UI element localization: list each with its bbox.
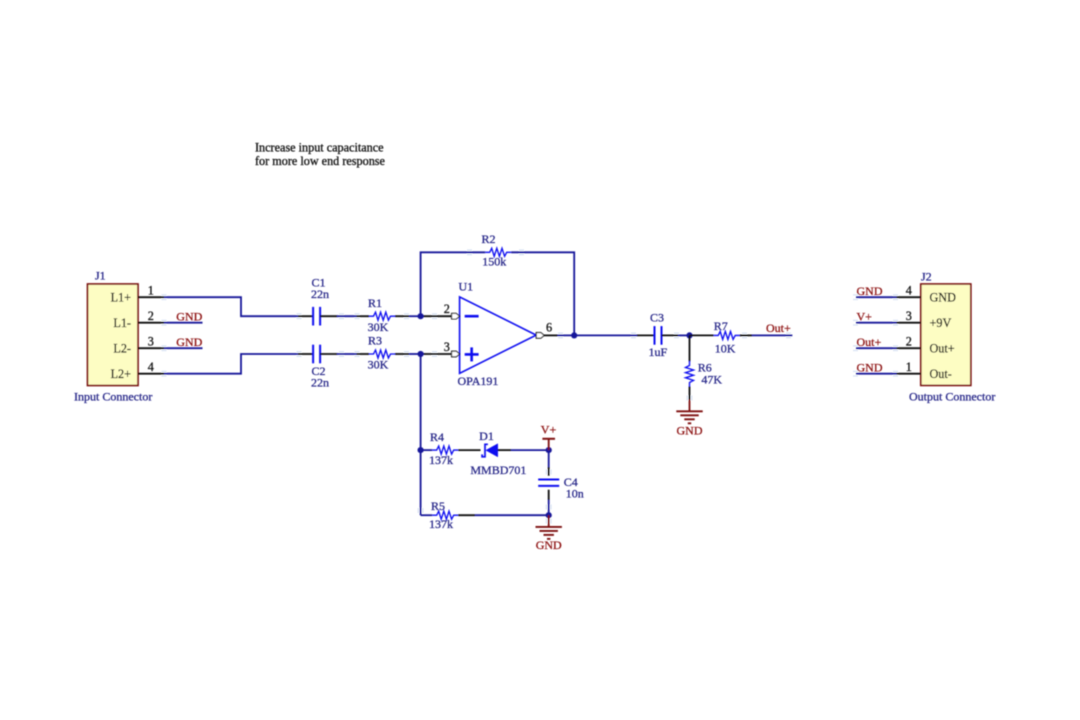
svg-text:R1: R1 [368, 296, 382, 310]
svg-text:2: 2 [906, 335, 912, 349]
svg-text:2: 2 [444, 302, 450, 316]
svg-text:L2+: L2+ [111, 367, 132, 381]
svg-text:Input Connector: Input Connector [74, 389, 152, 403]
svg-text:Out+: Out+ [857, 335, 882, 349]
svg-text:30K: 30K [368, 358, 389, 372]
svg-text:GND: GND [930, 290, 957, 304]
svg-text:10K: 10K [715, 341, 736, 355]
svg-text:Output Connector: Output Connector [909, 389, 995, 403]
svg-text:GND: GND [677, 423, 703, 437]
svg-text:GND: GND [536, 538, 562, 552]
svg-text:2: 2 [148, 309, 154, 323]
svg-text:V+: V+ [857, 310, 873, 324]
svg-text:+9V: +9V [930, 316, 952, 330]
svg-text:30K: 30K [368, 320, 389, 334]
svg-text:L1+: L1+ [111, 290, 132, 304]
svg-text:10n: 10n [566, 486, 584, 500]
svg-text:J1: J1 [95, 269, 106, 283]
svg-text:3: 3 [906, 309, 912, 323]
svg-text:137k: 137k [429, 453, 453, 467]
svg-text:22n: 22n [311, 287, 329, 301]
svg-text:L1-: L1- [113, 316, 131, 330]
svg-text:R7: R7 [714, 319, 728, 333]
svg-text:Out-: Out- [930, 367, 952, 381]
svg-text:Out+: Out+ [930, 341, 955, 355]
svg-text:GND: GND [857, 361, 883, 375]
svg-text:L2-: L2- [113, 341, 131, 355]
svg-text:OPA191: OPA191 [458, 374, 499, 388]
svg-text:4: 4 [906, 284, 912, 298]
svg-text:GND: GND [176, 335, 202, 349]
svg-text:R3: R3 [368, 334, 382, 348]
svg-text:3: 3 [148, 335, 154, 349]
svg-text:150k: 150k [482, 255, 506, 269]
svg-text:J2: J2 [921, 270, 932, 284]
svg-text:Increase input capacitance: Increase input capacitance [255, 140, 384, 154]
svg-text:U1: U1 [459, 280, 474, 294]
svg-text:Out+: Out+ [766, 321, 791, 335]
svg-text:MMBD701: MMBD701 [470, 463, 526, 477]
svg-text:6: 6 [546, 321, 552, 335]
svg-text:for more low end response: for more low end response [255, 154, 385, 168]
svg-text:4: 4 [148, 360, 154, 374]
svg-text:3: 3 [444, 340, 450, 354]
svg-text:1: 1 [906, 360, 912, 374]
svg-text:47K: 47K [701, 373, 722, 387]
svg-text:C3: C3 [650, 311, 664, 325]
svg-text:V+: V+ [541, 422, 557, 436]
svg-text:GND: GND [176, 309, 202, 323]
svg-text:22n: 22n [311, 375, 329, 389]
svg-text:R2: R2 [482, 232, 496, 246]
svg-text:D1: D1 [479, 429, 494, 443]
svg-text:1: 1 [148, 284, 154, 298]
svg-text:1uF: 1uF [649, 345, 668, 359]
svg-text:137k: 137k [429, 517, 453, 531]
svg-text:GND: GND [857, 284, 883, 298]
svg-text:R5: R5 [431, 499, 445, 513]
svg-text:R4: R4 [430, 430, 444, 444]
